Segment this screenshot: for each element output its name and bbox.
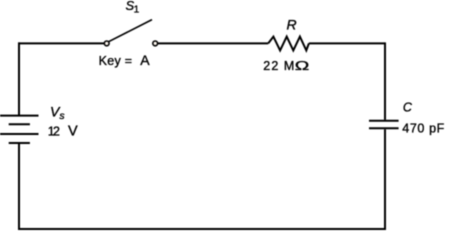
- switch S1: [104, 20, 157, 46]
- svg-text:Vs: Vs: [50, 103, 65, 121]
- resistor R zigzag: [268, 37, 309, 51]
- capacitor C plates: [369, 121, 399, 129]
- svg-text:Key =: Key =: [99, 54, 133, 68]
- wire left vertical upper (corner to battery): [18, 42, 20, 115]
- wire resistor to top-right corner: [309, 42, 385, 44]
- svg-text:V: V: [68, 123, 78, 139]
- svg-text:470 pF: 470 pF: [402, 122, 444, 136]
- wire switch to resistor: [158, 42, 269, 44]
- svg-text:1: 1: [134, 4, 140, 15]
- wire left vertical lower (battery to bottom corner): [18, 143, 20, 230]
- svg-text:A: A: [140, 52, 150, 68]
- wire right vertical upper (corner to capacitor): [384, 42, 386, 119]
- battery V1 plates: [0, 116, 39, 143]
- switch blade: [109, 20, 152, 42]
- switch left terminal circle: [104, 41, 109, 46]
- svg-text:Ω: Ω: [295, 58, 310, 73]
- svg-text:R: R: [287, 17, 297, 33]
- svg-text:12: 12: [48, 124, 60, 138]
- svg-text:C: C: [403, 100, 413, 114]
- wire right vertical lower (capacitor to bottom corner): [384, 129, 386, 230]
- wire bottom horizontal: [18, 228, 386, 230]
- svg-text:22 M: 22 M: [263, 59, 294, 73]
- wire top-left horizontal segment: [18, 42, 104, 44]
- switch right terminal circle: [153, 41, 158, 46]
